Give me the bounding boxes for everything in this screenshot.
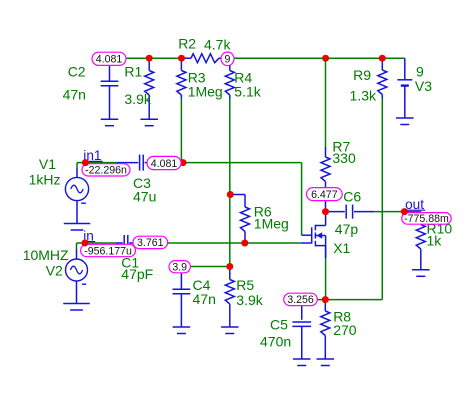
svg-text:4.081: 4.081 (96, 54, 123, 66)
svg-text:C2: C2 (68, 63, 86, 79)
svg-text:1Meg: 1Meg (188, 84, 223, 100)
svg-text:4.7k: 4.7k (204, 37, 231, 53)
svg-text:470n: 470n (260, 334, 291, 350)
svg-text:47n: 47n (193, 291, 216, 307)
svg-text:9: 9 (416, 63, 424, 79)
svg-text:R1: R1 (124, 63, 142, 79)
svg-text:10MHZ: 10MHZ (23, 247, 69, 263)
svg-text:-956.177u: -956.177u (84, 245, 132, 257)
svg-text:V1: V1 (39, 156, 56, 172)
svg-text:3.9k: 3.9k (236, 292, 263, 308)
svg-text:47u: 47u (133, 189, 156, 205)
svg-text:9: 9 (225, 54, 231, 66)
svg-text:270: 270 (333, 322, 357, 338)
svg-text:6.477: 6.477 (311, 189, 338, 201)
svg-text:3.9k: 3.9k (124, 91, 151, 107)
svg-text:R2: R2 (178, 35, 196, 51)
svg-text:1k: 1k (427, 233, 443, 249)
svg-text:330: 330 (332, 150, 356, 166)
svg-text:X1: X1 (333, 240, 350, 256)
svg-text:47pF: 47pF (121, 266, 153, 282)
svg-text:5.1k: 5.1k (234, 84, 261, 100)
svg-text:1.3k: 1.3k (350, 88, 377, 104)
svg-text:R9: R9 (353, 67, 371, 83)
svg-text:3.9: 3.9 (172, 262, 187, 274)
svg-text:1kHz: 1kHz (29, 172, 61, 188)
svg-text:C6: C6 (343, 189, 361, 205)
svg-text:47n: 47n (63, 87, 86, 103)
svg-text:47p: 47p (335, 221, 359, 237)
svg-text:R5: R5 (236, 277, 254, 293)
svg-text:3.256: 3.256 (287, 294, 314, 306)
svg-text:V3: V3 (415, 78, 432, 94)
svg-text:-22.296n: -22.296n (85, 165, 127, 177)
svg-text:1Meg: 1Meg (254, 215, 289, 231)
svg-text:4.081: 4.081 (151, 158, 178, 170)
svg-text:V2: V2 (46, 263, 63, 279)
svg-text:C5: C5 (270, 317, 288, 333)
svg-text:-775.88m: -775.88m (404, 213, 449, 225)
svg-text:out: out (405, 197, 424, 212)
svg-text:3.761: 3.761 (137, 237, 164, 249)
